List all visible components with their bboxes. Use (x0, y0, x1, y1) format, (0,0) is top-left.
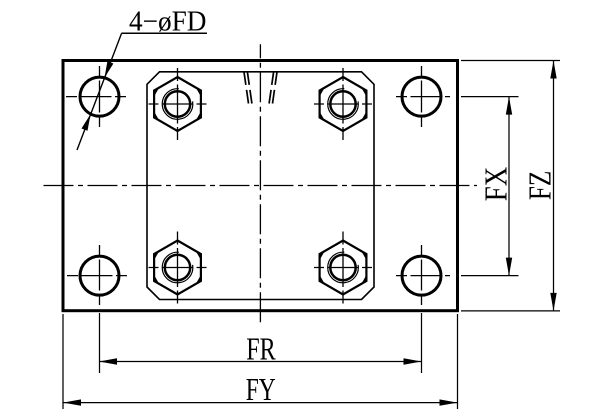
svg-text:FY: FY (246, 371, 276, 407)
dimension FY (63, 314, 458, 409)
nut bottom-right (314, 232, 372, 304)
svg-text:FR: FR (246, 332, 276, 367)
leader 4-oFD (77, 34, 122, 151)
hole bottom-left (80, 256, 119, 295)
svg-text:FZ: FZ (522, 171, 558, 201)
inner chamfered rectangle (147, 72, 374, 300)
hole top-left centerlines (66, 96, 126, 98)
plate outline (63, 61, 458, 311)
hole top-right (402, 77, 441, 116)
horizontal main centerline (44, 185, 478, 187)
vertical main centerline (259, 44, 261, 324)
hidden port lines left pair (244, 72, 252, 104)
nut bottom-left (149, 232, 207, 304)
dimension FZ (461, 61, 560, 311)
hole bottom-left centerlines (67, 275, 130, 277)
hole top-left (80, 77, 119, 116)
hidden port lines right pair (269, 72, 277, 104)
hole top-right centerlines (396, 96, 450, 98)
dimension FX (461, 97, 519, 276)
nut top-right (314, 68, 372, 140)
hole bottom-right (402, 256, 441, 295)
svg-text:FX: FX (477, 167, 513, 202)
nut top-left (149, 68, 207, 140)
hole bottom-right centerlines (396, 275, 450, 277)
dimension FR (99, 332, 422, 367)
